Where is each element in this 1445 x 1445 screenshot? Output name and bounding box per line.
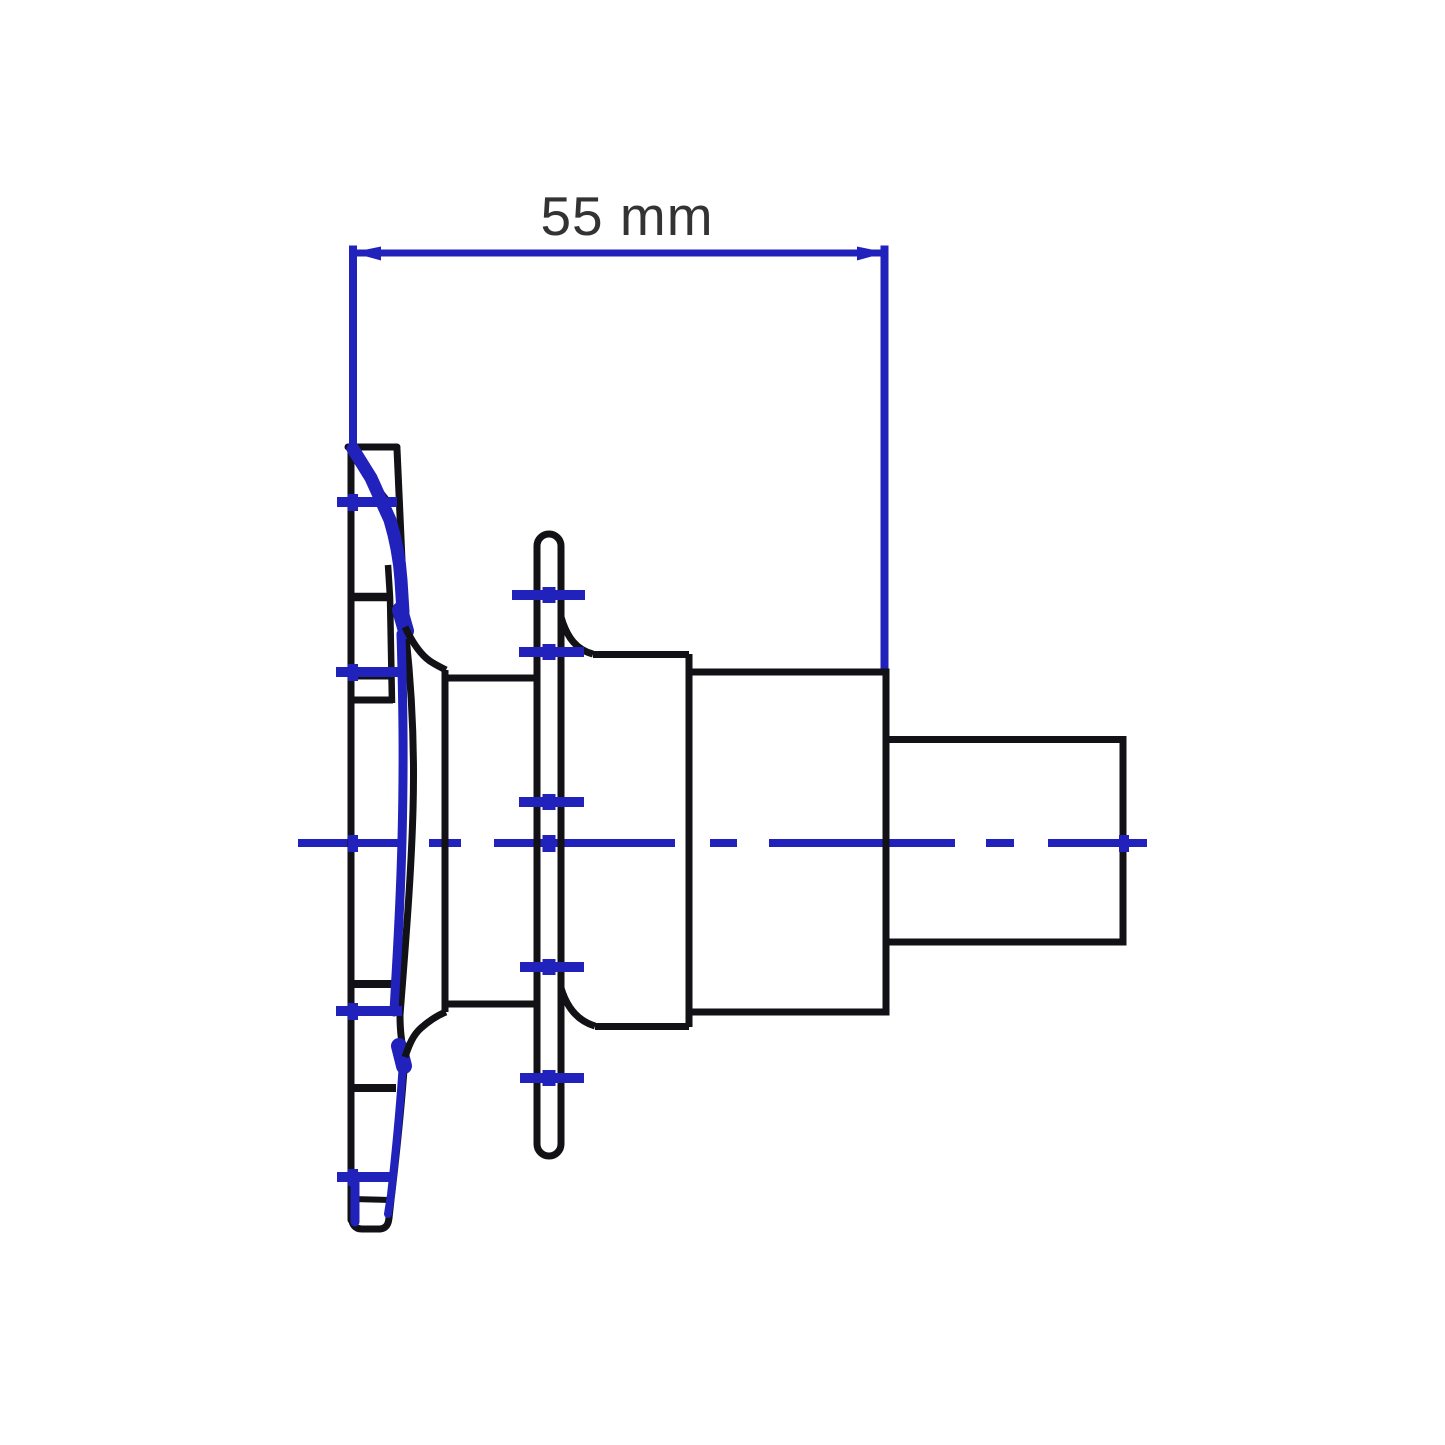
right shaft: [886, 740, 1123, 943]
flange inner rim edge mid: [388, 565, 392, 703]
extension line right: [881, 246, 889, 672]
hub top fillet: [561, 617, 593, 654]
hub top line: [593, 651, 689, 658]
flange inner rim edge top: [355, 459, 389, 503]
top cone fillet: [405, 627, 446, 670]
barrel edge vertical: [442, 670, 449, 1012]
flange internal line y700: [351, 697, 393, 704]
blue centermark dash at shaft end: [1119, 835, 1129, 852]
flange outline: [348, 447, 414, 1229]
dimension arrow right: [857, 247, 886, 261]
blue centermark ticks on flange: [336, 502, 404, 1177]
dimension arrow left: [352, 247, 381, 261]
bottom cone fillet: [405, 1012, 446, 1057]
flange internal line y597: [351, 593, 389, 602]
flange cap inner line bottom: [352, 1199, 389, 1200]
flange internal line y676: [351, 673, 392, 680]
blue highlighted edge on flange face: [353, 449, 406, 1222]
flange internal line y1088: [351, 1084, 396, 1092]
centerline dash-dot: [298, 839, 1147, 847]
svg-text:55 mm: 55 mm: [540, 185, 713, 247]
step edge vertical: [686, 654, 693, 1027]
blue centermark vertical dashes on disc: [543, 587, 556, 1086]
dimension line 55mm: [350, 250, 888, 257]
hub bottom line: [595, 1023, 689, 1030]
blue centermark ticks on disc: [512, 595, 585, 1078]
flange internal line y984: [351, 980, 394, 988]
barrel bottom line: [443, 1001, 534, 1008]
extension line left: [349, 246, 357, 448]
middle cylinder: [689, 672, 886, 1012]
thin disc: [537, 534, 561, 1156]
hub bottom fillet: [561, 988, 595, 1026]
barrel top line: [443, 675, 534, 682]
blue centermark vertical dashes on flange edge: [348, 494, 358, 1186]
